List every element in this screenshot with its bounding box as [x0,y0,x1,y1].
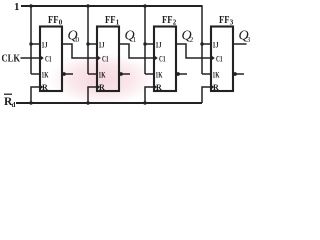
svg-text:3: 3 [247,35,251,44]
wire: J tap of FF0 [31,43,40,45]
Qbar3 output stub with junction dot [233,73,244,75]
clock dynamic-input wedge of FF2 [153,55,158,61]
reset-input wedge of FF3 [210,84,214,90]
junction at J tap of FF2 [143,42,146,45]
svg-text:1K: 1K [42,70,50,79]
svg-text:R: R [213,83,219,92]
Qbar1 output stub with junction dot [119,73,130,75]
svg-text:1J: 1J [213,40,219,49]
wire: K tap of FF1 [88,73,97,75]
wire: J tap of FF3 [202,43,211,45]
svg-text:3: 3 [230,18,234,26]
wire: J tap of FF2 [145,43,154,45]
Qbar0 output stub with junction dot [62,73,73,75]
svg-text:R: R [99,83,105,92]
overbar of Rd [4,93,12,95]
flip-flop FF0 box [40,27,62,92]
junction on bottom rail at FF1 riser [86,101,89,104]
svg-text:1K: 1K [99,70,107,79]
flip-flop FF1 box [97,27,119,92]
wire: Rd-bar bottom rail [16,102,202,104]
wire: K tap of FF0 [31,73,40,75]
junction on top rail at FF1 drop [86,4,89,7]
reset-input wedge of FF1 [96,84,100,90]
svg-text:1J: 1J [42,40,48,49]
junction on bottom rail at FF2 riser [143,101,146,104]
svg-text:FF: FF [162,14,173,26]
svg-text:2: 2 [190,35,194,44]
svg-text:1: 1 [14,1,20,13]
svg-text:FF: FF [219,14,230,26]
svg-text:1J: 1J [156,40,162,49]
clock dynamic-input wedge of FF1 [96,55,101,61]
wire: Q2 output step to clock of FF3 [176,44,211,58]
watermark tint [49,53,155,105]
wire: K tap of FF3 [202,73,211,75]
svg-text:1J: 1J [99,40,105,49]
svg-text:R: R [42,83,48,92]
wire: K tap of FF2 [145,73,154,75]
reset-input wedge of FF2 [153,84,157,90]
wire: logic-1 top rail [21,5,202,7]
svg-text:R: R [156,83,162,92]
wire: CLK input lead [21,57,41,59]
clock dynamic-input wedge of FF3 [210,55,215,61]
svg-text:0: 0 [76,35,80,44]
reset-input wedge of FF0 [39,84,43,90]
svg-text:C1: C1 [45,54,52,63]
svg-text:C1: C1 [159,54,166,63]
Qbar2 output stub with junction dot [176,73,187,75]
junction at J tap of FF0 [29,42,32,45]
wire: 1-rail drop to J/K of FF1 [87,5,89,74]
clock dynamic-input wedge of FF0 [39,55,44,61]
junction at J tap of FF1 [86,42,89,45]
svg-text:C1: C1 [216,54,223,63]
wire: Q3 output lead [233,43,247,45]
flip-flop FF2 box [154,27,176,92]
svg-text:FF: FF [105,14,116,26]
svg-text:CLK: CLK [2,53,21,65]
wire: reset riser to R of FF2 [145,87,154,103]
wire: 1-rail drop to J/K of FF0 [30,5,32,74]
svg-text:1K: 1K [156,70,164,79]
svg-text:1K: 1K [213,70,221,79]
svg-text:FF: FF [48,14,59,26]
junction on bottom rail at FF0 riser [29,101,32,104]
wire: Q0 output step to clock of FF1 [62,44,97,58]
svg-text:0: 0 [59,18,63,26]
svg-text:C1: C1 [102,54,109,63]
junction on top rail at FF0 drop [29,4,32,7]
svg-text:2: 2 [173,18,177,26]
wire: reset riser to R of FF0 [31,87,40,103]
junction on top rail at FF2 drop [143,4,146,7]
wire: reset riser to R of FF1 [88,87,97,103]
flip-flop FF3 box [211,27,233,92]
svg-text:d: d [12,101,16,109]
svg-text:1: 1 [133,35,137,44]
wire: Q1 output step to clock of FF2 [119,44,154,58]
wire: 1-rail drop to J/K of FF3 [201,5,203,74]
junction at J tap of FF3 [200,42,203,45]
wire: J tap of FF1 [88,43,97,45]
wire: 1-rail drop to J/K of FF2 [144,5,146,74]
svg-text:1: 1 [116,18,120,26]
wire: reset riser to R of FF3 [202,87,211,103]
